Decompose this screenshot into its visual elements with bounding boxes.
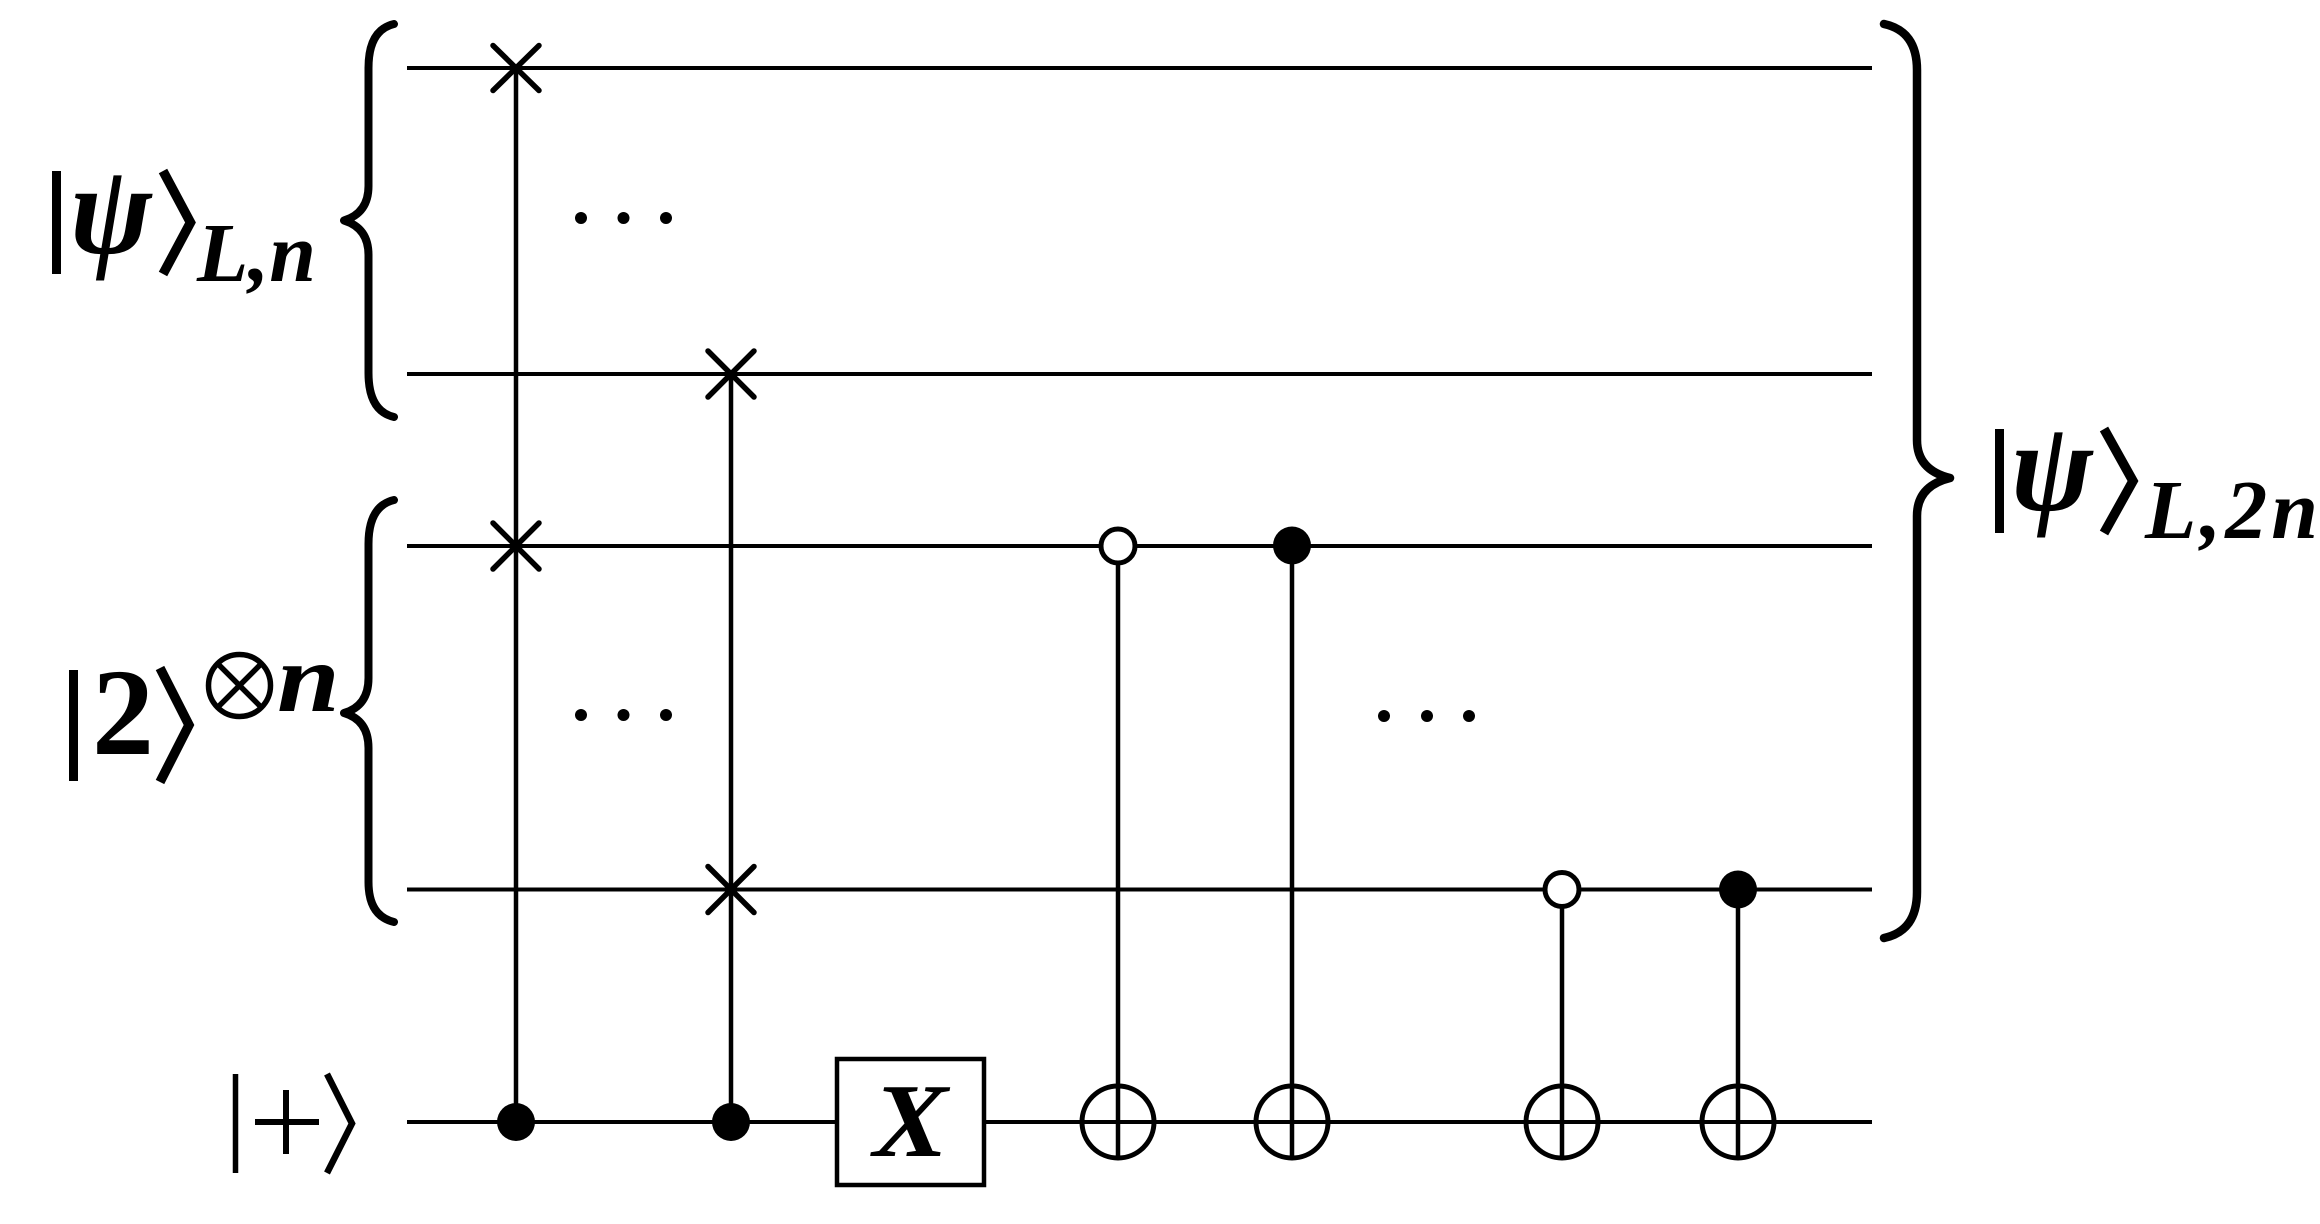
label ket 2 tensor n : tensor cross xyxy=(218,664,262,708)
label ket plus : bar xyxy=(233,1074,239,1173)
swap cross on q3 xyxy=(493,523,539,569)
right brace for output register xyxy=(1884,24,1950,938)
svg-text:L,n: L,n xyxy=(196,207,316,300)
label ket 2 tensor n : rangle xyxy=(160,668,189,782)
label ket psi L,n : bar xyxy=(52,171,61,274)
ellipsis dots right side between q3 and q4 xyxy=(1378,710,1475,722)
svg-text:ψ: ψ xyxy=(70,139,153,282)
swap cross on q2 xyxy=(708,351,754,397)
ellipsis dots between q1 and q2 xyxy=(575,212,672,224)
svg-text:2: 2 xyxy=(92,644,154,781)
label ket 2 tensor n : tensor circle xyxy=(209,655,271,717)
X gate box on ancilla xyxy=(837,1059,984,1185)
CNOT 1 open control on q3 xyxy=(1101,529,1135,563)
controlled-swap 1 vertical wire xyxy=(514,68,519,1122)
CNOT 4 target on ancilla xyxy=(1702,1086,1774,1158)
wire q5 (ancilla |+>) xyxy=(407,1120,1872,1124)
label ket plus : plus xyxy=(255,1090,319,1154)
label ket plus : rangle xyxy=(327,1074,352,1173)
svg-text:ψ: ψ xyxy=(2011,396,2094,539)
CNOT 1 target on ancilla xyxy=(1082,1086,1154,1158)
left brace for first register xyxy=(344,24,394,417)
swap cross on q1 xyxy=(493,46,539,91)
wire q4 (last qubit of second register) xyxy=(407,888,1872,892)
controlled-swap 2 vertical wire xyxy=(729,374,734,1122)
svg-text:L,2n: L,2n xyxy=(2144,464,2320,557)
label ket psi L,n : rangle xyxy=(163,171,191,274)
label ket psi L,2n : bar xyxy=(1995,429,2004,533)
svg-text:n: n xyxy=(277,624,340,733)
swap 1 control dot on ancilla xyxy=(497,1103,535,1141)
CNOT 2 target on ancilla xyxy=(1256,1086,1328,1158)
CNOT 3 open control on q4 xyxy=(1545,873,1579,907)
svg-text:X: X xyxy=(870,1062,951,1179)
CNOT 2 vertical wire xyxy=(1290,545,1295,1158)
label ket psi L,2n : rangle xyxy=(2104,429,2133,533)
CNOT 3 target on ancilla xyxy=(1526,1086,1598,1158)
label ket 2 tensor n : bar xyxy=(69,670,78,781)
left brace for second register xyxy=(344,500,394,922)
swap 2 control dot on ancilla xyxy=(712,1103,750,1141)
CNOT 2 filled control on q3 xyxy=(1273,527,1311,565)
ellipsis dots between q3 and q4 xyxy=(575,709,672,721)
wire q2 (last qubit of first register) xyxy=(407,372,1872,376)
CNOT 1 vertical wire xyxy=(1116,565,1121,1158)
swap cross on q4 xyxy=(708,867,754,913)
wire q1 (top qubit of first register) xyxy=(407,66,1872,70)
CNOT 4 vertical wire xyxy=(1736,889,1741,1158)
CNOT 4 filled control on q4 xyxy=(1719,871,1757,909)
wire q3 (first qubit of second register) xyxy=(407,544,1872,548)
CNOT 3 vertical wire xyxy=(1560,908,1565,1158)
